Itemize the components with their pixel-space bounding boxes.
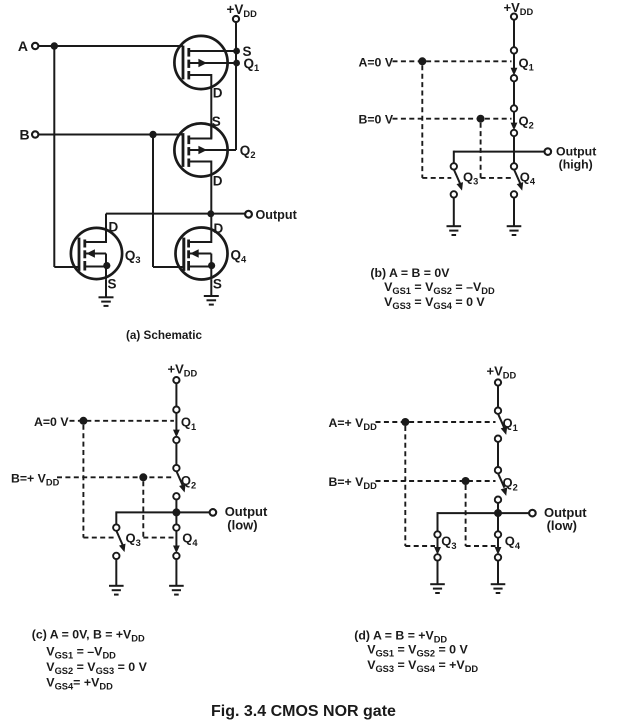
switch Q1 upper contact (panel c) xyxy=(173,407,179,413)
svg-text:Fig. 3.4 CMOS NOR gate: Fig. 3.4 CMOS NOR gate xyxy=(211,703,396,720)
wire VDD rail down to Q1 source node (panel a) xyxy=(235,22,237,150)
switch Q3 lower contact (panel b) xyxy=(451,191,457,197)
wire dashed A branch down (panel d) xyxy=(404,426,406,546)
wire dashed A control to Q1 blade (panel d) xyxy=(376,421,496,423)
wire Q1 drain to Q2 source (panel a) xyxy=(210,90,212,139)
svg-text:VGS3 = VGS4 = +VDD: VGS3 = VGS4 = +VDD xyxy=(367,658,478,674)
ground below Q3 (panel b) xyxy=(447,225,462,227)
wire dashed B branch down (panel b) xyxy=(480,123,482,178)
wire dashed B control to Q2 blade (panel d) xyxy=(376,480,496,482)
wire Q4 to ground (panel d) xyxy=(497,561,499,585)
wire dashed A branch down (panel b) xyxy=(421,65,423,178)
svg-text:(c) A = 0V, B = +VDD: (c) A = 0V, B = +VDD xyxy=(32,628,145,644)
wire output corner down to Q3 (panel c) xyxy=(115,511,117,524)
node junction dot output at rail (panel c) xyxy=(172,508,180,516)
switch Q1 lower contact (panel c) xyxy=(173,437,179,443)
svg-text:S: S xyxy=(108,277,117,292)
svg-text:Q1: Q1 xyxy=(244,56,260,73)
wire output node horizontal (panel d) xyxy=(438,512,530,514)
switch Q4 blade (panel c) xyxy=(175,531,177,547)
wire VDD rail to Q1 switch (panel d) xyxy=(497,386,499,408)
svg-text:D: D xyxy=(213,174,223,189)
svg-text:A=+ VDD: A=+ VDD xyxy=(329,416,378,432)
svg-text:A=0 V: A=0 V xyxy=(34,415,69,429)
svg-text:Output: Output xyxy=(556,144,596,158)
switch Q3 blade (panel b) xyxy=(454,169,460,184)
wire A branch down to Q3 gate (panel a) xyxy=(53,46,55,267)
wire dashed B branch to Q4 blade (panel c) xyxy=(143,537,174,539)
node junction dot on B wire (panel a) xyxy=(149,131,156,138)
svg-text:(a) Schematic: (a) Schematic xyxy=(126,329,202,342)
node Output terminal (panel d) xyxy=(529,510,536,517)
svg-text:A=0 V: A=0 V xyxy=(359,55,394,69)
wire Q2 to output node (panel c) xyxy=(175,500,177,525)
switch Q4 upper contact (panel c) xyxy=(173,524,179,530)
svg-text:Q3: Q3 xyxy=(441,534,456,551)
svg-text:Q3: Q3 xyxy=(125,248,141,265)
svg-text:B=+ VDD: B=+ VDD xyxy=(11,471,60,487)
wire Q4 to ground (panel b) xyxy=(513,198,515,227)
node junction dot on A dashed line (panel d) xyxy=(401,418,409,426)
wire dashed A control to Q1 blade (panel c) xyxy=(70,420,174,422)
wire Q1 to Q2 (panel b) xyxy=(513,81,515,105)
wire dashed B control to Q2 blade (panel b) xyxy=(393,118,512,120)
switch Q2 lower contact (panel d) xyxy=(495,497,501,503)
svg-text:Q4: Q4 xyxy=(505,534,521,551)
wire Q3 to ground (panel c) xyxy=(115,559,117,586)
switch Q4 upper contact (panel b) xyxy=(511,163,517,169)
svg-text:+VDD: +VDD xyxy=(487,364,517,381)
switch Q4 blade (panel b) xyxy=(514,169,520,184)
svg-text:Q1: Q1 xyxy=(503,416,518,433)
svg-text:VGS4= +VDD: VGS4= +VDD xyxy=(46,676,113,692)
wire VDD rail to Q1 switch (panel b) xyxy=(513,20,515,48)
wire dashed B branch down (panel d) xyxy=(465,485,467,546)
switch Q3 lower contact (panel c) xyxy=(113,553,119,559)
svg-text:Q3: Q3 xyxy=(126,531,141,548)
switch Q3 blade (panel d) xyxy=(437,538,439,548)
svg-text:Q3: Q3 xyxy=(463,169,478,186)
switch Q1 lower contact (panel b) xyxy=(511,75,517,81)
node junction dot on B dashed line (panel c) xyxy=(139,473,147,481)
svg-text:(low): (low) xyxy=(227,517,257,532)
wire dashed A control to Q1 blade (panel b) xyxy=(393,60,512,62)
wire dashed B branch to Q4 blade (panel b) xyxy=(481,177,512,179)
ground below Q3 (panel a) xyxy=(99,296,114,298)
ground below Q4 (panel b) xyxy=(507,225,522,227)
transistor Q4 NMOS (panel a) xyxy=(176,228,228,280)
svg-text:Q1: Q1 xyxy=(519,55,534,72)
svg-text:B=+ VDD: B=+ VDD xyxy=(329,475,378,491)
switch Q3 lower contact (panel d) xyxy=(434,554,440,560)
wire dashed A branch to Q3 blade (panel b) xyxy=(422,177,451,179)
svg-text:VGS1 = VGS2 = –VDD: VGS1 = VGS2 = –VDD xyxy=(384,280,495,296)
wire Q3 to ground (panel b) xyxy=(453,198,455,227)
wire output node horizontal (panel c) xyxy=(116,511,209,513)
wire output node horizontal (panel a) xyxy=(106,213,245,215)
wire input B to Q2 gate (panel a) xyxy=(38,134,183,136)
switch Q2 upper contact (panel c) xyxy=(173,465,179,471)
wire dashed A branch to Q3 blade (panel c) xyxy=(83,537,113,539)
node junction dot on A dashed line (panel c) xyxy=(79,417,87,425)
svg-text:Q2: Q2 xyxy=(240,143,256,160)
svg-text:Q2: Q2 xyxy=(181,473,196,490)
ground below Q4 (panel c) xyxy=(169,585,184,587)
switch Q1 blade (panel c) xyxy=(175,413,177,431)
svg-text:Output: Output xyxy=(256,208,298,222)
svg-text:(b) A = B = 0V: (b) A = B = 0V xyxy=(370,266,450,280)
switch Q4 lower contact (panel d) xyxy=(495,554,501,560)
switch Q4 upper contact (panel d) xyxy=(495,531,501,537)
node junction dot on A dashed line (panel b) xyxy=(418,57,426,65)
wire Q1 to Q2 (panel c) xyxy=(175,443,177,465)
wire Q2 to output node (panel d) xyxy=(497,503,499,531)
svg-text:VGS2 = VGS3 = 0 V: VGS2 = VGS3 = 0 V xyxy=(46,660,147,676)
wire Q2 to output node (panel b) xyxy=(513,136,515,163)
wire Q1 to Q2 (panel d) xyxy=(497,442,499,467)
ground below Q3 (panel c) xyxy=(109,585,124,587)
svg-text:Q4: Q4 xyxy=(520,169,536,186)
switch Q2 lower contact (panel c) xyxy=(173,493,179,499)
switch Q2 upper contact (panel b) xyxy=(511,105,517,111)
wire Q3 source to ground (panel a) xyxy=(105,279,107,297)
wire Q4 drain up to output line (panel a) xyxy=(210,214,212,228)
wire Q3 to ground (panel d) xyxy=(437,561,439,585)
svg-text:Q4: Q4 xyxy=(182,531,198,548)
switch Q1 blade (panel d) xyxy=(498,414,504,429)
svg-text:+VDD: +VDD xyxy=(168,362,198,379)
transistor Q1 PMOS (panel a) xyxy=(174,36,227,89)
switch Q3 blade (panel c) xyxy=(116,531,122,546)
node junction dot on B dashed line (panel d) xyxy=(462,477,470,485)
transistor Q3 NMOS (panel a) xyxy=(71,228,122,279)
wire Q2 drain down to output node (panel a) xyxy=(210,177,212,214)
wire input A to Q1 gate (panel a) xyxy=(38,45,183,47)
wire dashed A branch down (panel c) xyxy=(82,425,84,538)
ground below Q3 (panel d) xyxy=(430,583,445,585)
switch Q4 lower contact (panel b) xyxy=(511,191,517,197)
switch Q2 blade (panel d) xyxy=(498,473,504,488)
node junction dot output at rail (panel d) xyxy=(494,509,502,517)
svg-text:D: D xyxy=(213,86,223,101)
wire dashed B control to Q2 blade (panel c) xyxy=(57,476,174,478)
wire Q4 source to ground (panel a) xyxy=(210,280,212,296)
switch Q4 blade (panel d) xyxy=(497,538,499,548)
node S junction dot Q1 source (panel a) xyxy=(233,48,240,55)
svg-text:(high): (high) xyxy=(559,158,593,172)
ground below Q4 (panel a) xyxy=(204,295,219,297)
switch Q2 lower contact (panel b) xyxy=(511,130,517,136)
switch Q4 lower contact (panel c) xyxy=(173,553,179,559)
node Output terminal (panel a) xyxy=(245,211,252,218)
node junction dot on A wire (panel a) xyxy=(51,42,58,49)
node Output terminal (panel c) xyxy=(210,509,217,516)
wire dashed A branch to Q3 blade (panel d) xyxy=(405,545,435,547)
wire dashed B branch down (panel c) xyxy=(142,481,144,537)
wire VDD rail to Q1 switch (panel c) xyxy=(175,383,177,406)
wire output corner down to Q3 (panel b) xyxy=(453,151,455,164)
switch Q1 upper contact (panel b) xyxy=(511,47,517,53)
svg-text:VGS3 = VGS4 = 0 V: VGS3 = VGS4 = 0 V xyxy=(384,295,485,311)
wire Q4 to ground (panel c) xyxy=(175,559,177,586)
wire Q3 drain up to output line (panel a) xyxy=(105,214,107,229)
switch Q3 upper contact (panel b) xyxy=(451,163,457,169)
switch Q2 upper contact (panel d) xyxy=(495,467,501,473)
svg-text:Q1: Q1 xyxy=(181,415,196,432)
svg-text:Q4: Q4 xyxy=(231,248,248,265)
wire output node horizontal (panel b) xyxy=(454,151,545,153)
node junction dot output (panel a) xyxy=(207,210,214,217)
switch Q1 blade (panel b) xyxy=(513,54,515,69)
svg-text:Q2: Q2 xyxy=(519,114,534,131)
svg-text:+VDD: +VDD xyxy=(504,0,534,17)
svg-text:Q2: Q2 xyxy=(503,475,518,492)
node Output terminal (panel b) xyxy=(545,148,552,155)
switch Q3 upper contact (panel d) xyxy=(434,531,440,537)
svg-text:A: A xyxy=(18,38,28,54)
ground below Q4 (panel d) xyxy=(491,583,506,585)
svg-text:+VDD: +VDD xyxy=(227,2,258,19)
svg-text:B: B xyxy=(20,127,30,143)
svg-text:(low): (low) xyxy=(547,518,577,533)
wire dashed B branch to Q4 blade (panel d) xyxy=(466,545,496,547)
switch Q3 upper contact (panel c) xyxy=(113,524,119,530)
switch Q2 blade (panel c) xyxy=(176,471,182,486)
wire output corner down to Q3 (panel d) xyxy=(437,512,439,531)
wire B branch down to Q4 gate (panel a) xyxy=(152,135,154,268)
node junction dot Q1 body tie (panel a) xyxy=(233,60,240,67)
svg-text:VGS1 = VGS2 = 0 V: VGS1 = VGS2 = 0 V xyxy=(367,643,468,659)
svg-text:B=0 V: B=0 V xyxy=(359,113,394,127)
switch Q1 lower contact (panel d) xyxy=(495,436,501,442)
node junction dot on B dashed line (panel b) xyxy=(477,115,485,123)
switch Q2 blade (panel b) xyxy=(513,112,515,124)
svg-text:VGS1 = –VDD: VGS1 = –VDD xyxy=(46,645,116,661)
svg-text:S: S xyxy=(213,277,222,292)
switch Q1 upper contact (panel d) xyxy=(495,408,501,414)
transistor Q2 PMOS (panel a) xyxy=(174,123,227,176)
